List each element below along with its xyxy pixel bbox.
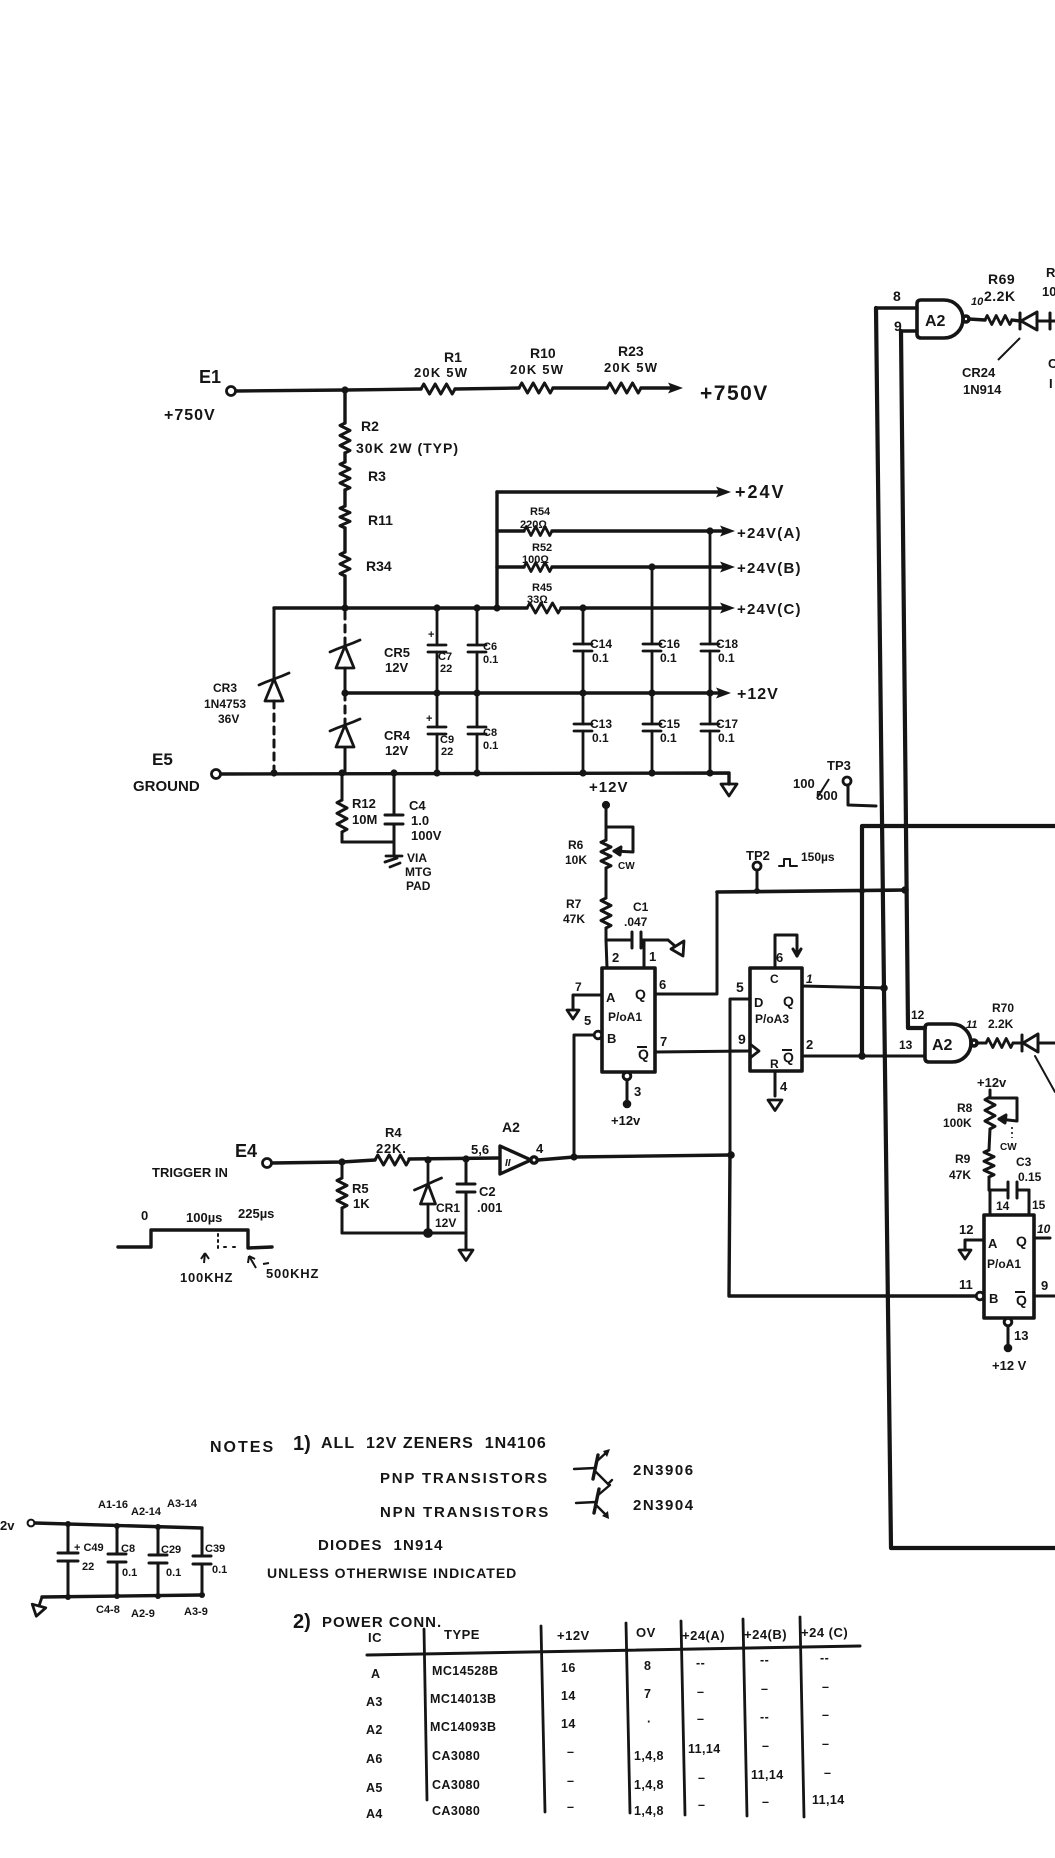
svg-text:22: 22 xyxy=(82,1561,94,1573)
label pins 14 15 xyxy=(996,1198,1046,1213)
junction xyxy=(341,386,348,393)
label TP3 100/500 xyxy=(793,758,851,803)
svg-text:MC14013B: MC14013B xyxy=(430,1692,496,1706)
terminal E4 xyxy=(263,1159,272,1168)
one-shot U A1b box xyxy=(984,1215,1034,1318)
resistor R10 xyxy=(519,383,553,393)
svg-text:225µs: 225µs xyxy=(238,1206,274,1221)
svg-text:CW: CW xyxy=(1000,1142,1017,1153)
svg-text:C15: C15 xyxy=(658,717,680,731)
svg-text:+24V(A): +24V(A) xyxy=(737,525,802,542)
svg-text:CR1: CR1 xyxy=(436,1201,460,1215)
svg-text:Q: Q xyxy=(783,993,794,1009)
svg-text:2.2K: 2.2K xyxy=(988,1017,1014,1031)
svg-text:R54: R54 xyxy=(530,506,551,518)
wire trigger bottom xyxy=(342,1230,466,1250)
label C3 0.15 xyxy=(1016,1155,1042,1184)
label R8 100K CW xyxy=(943,1101,1017,1153)
junction xyxy=(199,1592,205,1598)
terminal TP2 xyxy=(753,862,761,870)
svg-text:+24V(B): +24V(B) xyxy=(737,560,802,577)
junction xyxy=(390,769,397,776)
resistor R45 xyxy=(527,603,561,613)
label A1b internals xyxy=(987,1233,1027,1308)
svg-text:11: 11 xyxy=(966,1019,977,1031)
capacitor C13 xyxy=(574,693,592,773)
wire A1b pin13 +12V xyxy=(1004,1318,1012,1351)
svg-text:+750V: +750V xyxy=(700,382,769,405)
wire A1 pin3 +12V xyxy=(623,1072,631,1107)
svg-text:0: 0 xyxy=(141,1208,148,1223)
svg-text:A2: A2 xyxy=(932,1037,953,1054)
wire A3 clock pin9 xyxy=(730,1050,750,1053)
label A1-16 A2-14 A3-14 xyxy=(98,1498,198,1518)
svg-text:0.1: 0.1 xyxy=(660,731,677,745)
wire inverter output xyxy=(538,1155,731,1160)
label C2 .001 xyxy=(477,1184,502,1215)
label CR1 12V xyxy=(435,1201,460,1230)
junction xyxy=(493,604,500,611)
svg-text:1.0: 1.0 xyxy=(411,813,429,828)
svg-text:R2: R2 xyxy=(361,418,379,434)
svg-text:20K 5W: 20K 5W xyxy=(414,365,468,380)
svg-text:0.1: 0.1 xyxy=(166,1567,181,1579)
svg-text:+12V: +12V xyxy=(589,779,628,796)
wire TP2 stem xyxy=(756,870,759,891)
junction xyxy=(706,527,713,534)
resistor R54 xyxy=(524,527,552,536)
label E5 GROUND xyxy=(133,750,200,795)
svg-text:+24(B): +24(B) xyxy=(744,1627,787,1642)
junction xyxy=(155,1593,161,1599)
svg-text:0.1: 0.1 xyxy=(660,651,677,665)
potentiometer R8 xyxy=(985,1090,1017,1129)
svg-text:–: – xyxy=(698,1771,705,1785)
svg-text:4: 4 xyxy=(536,1141,544,1156)
svg-text:R4: R4 xyxy=(385,1125,402,1140)
svg-text:–: – xyxy=(822,1708,829,1722)
table row A2 xyxy=(366,1708,829,1737)
svg-text:1: 1 xyxy=(806,972,813,986)
svg-text:100Ω: 100Ω xyxy=(522,554,549,566)
label A3 internals xyxy=(754,972,794,1065)
svg-text:C8: C8 xyxy=(483,727,497,739)
svg-text:–: – xyxy=(567,1745,574,1759)
wire A1b Q pin10 xyxy=(1034,1237,1050,1240)
label R9 47K xyxy=(949,1152,971,1182)
svg-text:47K: 47K xyxy=(949,1168,971,1182)
junction xyxy=(880,984,888,992)
junction xyxy=(579,604,586,611)
wire A3 pin4 ground xyxy=(774,1071,777,1096)
svg-text:C2: C2 xyxy=(479,1184,496,1199)
label TP2 150us xyxy=(746,848,835,864)
svg-text:GROUND: GROUND xyxy=(133,778,200,795)
label 500KHZ arrow xyxy=(248,1256,319,1281)
junction xyxy=(648,689,655,696)
svg-text:7: 7 xyxy=(660,1034,667,1049)
label CR25 pointer xyxy=(1035,1056,1055,1092)
svg-text:20K 5W: 20K 5W xyxy=(510,362,564,377)
svg-text:OV: OV xyxy=(636,1625,656,1640)
label C18 0.1 xyxy=(716,637,738,665)
bubble A1 B-input xyxy=(594,1031,602,1039)
svg-text:0.1: 0.1 xyxy=(592,651,609,665)
junction xyxy=(341,604,348,611)
label R2 30K 2W xyxy=(356,418,459,456)
label R52 100 xyxy=(522,542,552,566)
svg-text:10: 10 xyxy=(1042,284,1055,299)
svg-text:2: 2 xyxy=(806,1037,813,1052)
nand gate A2 top xyxy=(917,300,969,338)
wire TP3 stem xyxy=(848,785,876,806)
svg-text:8: 8 xyxy=(893,288,901,304)
svg-text:B: B xyxy=(607,1031,616,1046)
wire A3 Q pin1 xyxy=(802,986,886,988)
svg-text:A2: A2 xyxy=(502,1119,520,1135)
wire net horiz 826 xyxy=(862,826,1055,1056)
capacitor C29 xyxy=(149,1527,167,1597)
svg-text:+12V: +12V xyxy=(557,1628,590,1643)
svg-text:11: 11 xyxy=(959,1277,973,1292)
label R54 220 xyxy=(520,506,551,531)
table row A5 xyxy=(366,1766,831,1795)
label R70 2.2K xyxy=(988,1001,1014,1031)
svg-text:–: – xyxy=(822,1737,829,1751)
label C7 22 + xyxy=(428,629,452,675)
capacitor C39 xyxy=(193,1528,211,1595)
resistor R23 xyxy=(607,383,641,393)
svg-text:6: 6 xyxy=(659,977,666,992)
svg-text:–: – xyxy=(697,1712,704,1726)
svg-text:7: 7 xyxy=(644,1687,651,1701)
svg-text:+24V: +24V xyxy=(735,482,786,502)
svg-text:A6: A6 xyxy=(366,1752,383,1766)
svg-text:–: – xyxy=(824,1766,831,1780)
label R45 33 xyxy=(527,582,552,606)
svg-text:12: 12 xyxy=(959,1222,973,1237)
svg-text:ALL 12V ZENERS 1N4106: ALL 12V ZENERS 1N4106 xyxy=(321,1435,547,1452)
svg-text:0.1: 0.1 xyxy=(718,731,735,745)
junction xyxy=(648,769,655,776)
label C13 0.1 xyxy=(590,717,612,745)
svg-text:R10: R10 xyxy=(530,345,556,361)
ground C1 xyxy=(668,940,684,956)
junction xyxy=(754,888,760,894)
label C8b 0.1 xyxy=(121,1543,137,1579)
wire A2mid output xyxy=(977,1042,1022,1045)
wire A1 B-input xyxy=(574,1035,594,1157)
wire ground rail xyxy=(221,773,729,784)
label 5,6 A2 4 xyxy=(471,1119,544,1157)
svg-text:5: 5 xyxy=(736,979,744,995)
svg-text:16: 16 xyxy=(561,1661,576,1675)
svg-text:14: 14 xyxy=(996,1199,1010,1213)
label C16 0.1 xyxy=(658,637,680,665)
label R5 1K xyxy=(352,1181,370,1211)
svg-text:0.1: 0.1 xyxy=(483,654,498,666)
svg-text:+750V: +750V xyxy=(164,407,216,424)
label C49 22 + xyxy=(74,1542,104,1573)
svg-text:+ C49: + C49 xyxy=(74,1542,104,1554)
waveform dotted xyxy=(218,1234,240,1252)
svg-text:9: 9 xyxy=(894,318,902,334)
svg-text:--: -- xyxy=(820,1651,829,1665)
svg-text:14: 14 xyxy=(561,1717,576,1731)
diode CR25 xyxy=(1022,1034,1055,1052)
svg-text:12V: 12V xyxy=(385,660,408,675)
capacitor C1 xyxy=(606,932,668,948)
svg-text:5,6: 5,6 xyxy=(471,1142,489,1157)
svg-text:R34: R34 xyxy=(366,558,392,574)
svg-text:A5: A5 xyxy=(366,1781,383,1795)
svg-text:A: A xyxy=(606,990,616,1005)
svg-text:11,14: 11,14 xyxy=(812,1793,845,1807)
pulse glyph TP2 xyxy=(779,859,797,866)
label CR4 12V xyxy=(384,728,411,758)
svg-text:C9: C9 xyxy=(440,734,454,746)
capacitor C3 xyxy=(989,1182,1029,1198)
svg-text:IC: IC xyxy=(368,1630,382,1645)
resistor R9 xyxy=(984,1129,994,1190)
svg-text:C6: C6 xyxy=(483,641,497,653)
svg-text:CA3080: CA3080 xyxy=(432,1778,480,1792)
svg-text:PAD: PAD xyxy=(406,879,431,893)
svg-text:A4: A4 xyxy=(366,1807,383,1821)
table header xyxy=(368,1625,848,1645)
label R7 47K xyxy=(563,897,585,926)
zener CR1 xyxy=(415,1160,442,1233)
junction xyxy=(155,1524,161,1530)
svg-text:CW: CW xyxy=(618,861,635,872)
svg-text:12: 12 xyxy=(911,1008,925,1022)
capacitor C7 xyxy=(428,608,446,693)
svg-text:–: – xyxy=(567,1774,574,1788)
svg-text:CR24: CR24 xyxy=(962,365,996,380)
wire +24V(B) rail xyxy=(497,562,735,573)
svg-text:100V: 100V xyxy=(411,828,442,843)
resistor R1 xyxy=(421,384,455,394)
svg-text:VIA: VIA xyxy=(407,851,427,865)
svg-text:P/oA3: P/oA3 xyxy=(755,1012,789,1026)
svg-text:PNP TRANSISTORS: PNP TRANSISTORS xyxy=(380,1470,549,1487)
wire A1 Q pin6 xyxy=(655,892,717,994)
ground trigger xyxy=(459,1250,473,1261)
label waveform times xyxy=(141,1206,274,1225)
label A1 internals xyxy=(606,986,649,1062)
junction xyxy=(114,1593,120,1599)
table row A6 xyxy=(366,1737,829,1766)
label note 2 POWER CONN xyxy=(293,1611,442,1633)
svg-text:A3-14: A3-14 xyxy=(167,1498,198,1510)
svg-text:10M: 10M xyxy=(352,812,377,827)
svg-text:A2: A2 xyxy=(366,1723,383,1737)
waveform trigger xyxy=(118,1230,272,1248)
svg-text:D: D xyxy=(754,995,763,1010)
svg-text:1N4753: 1N4753 xyxy=(204,697,246,711)
svg-text:1: 1 xyxy=(649,949,656,964)
wire trigger to A1b pin11 xyxy=(729,1155,976,1296)
zener CR4 xyxy=(330,719,360,747)
svg-text:–: – xyxy=(822,1680,829,1694)
resistor R2 xyxy=(340,423,350,453)
potentiometer R6 xyxy=(601,827,633,868)
svg-text:Q: Q xyxy=(638,1046,649,1062)
svg-text:C3: C3 xyxy=(1016,1155,1032,1169)
svg-text:100KHZ: 100KHZ xyxy=(180,1270,233,1285)
capacitor C4 xyxy=(385,773,403,842)
svg-text:R23: R23 xyxy=(618,343,644,359)
svg-text:I: I xyxy=(1049,376,1053,391)
capacitor C8 xyxy=(468,693,486,773)
svg-text:E4: E4 xyxy=(235,1141,257,1161)
svg-text:TRIGGER IN: TRIGGER IN xyxy=(152,1165,228,1180)
svg-text:–: – xyxy=(762,1739,769,1753)
svg-text:C8: C8 xyxy=(121,1543,135,1555)
svg-text:–: – xyxy=(697,1685,704,1699)
wire A1b Qbar pin9 xyxy=(1034,1295,1055,1298)
junction xyxy=(65,1594,71,1600)
svg-text:47K: 47K xyxy=(563,912,585,926)
terminal E5 xyxy=(212,770,221,779)
capacitor C8b xyxy=(108,1526,126,1597)
svg-text:–: – xyxy=(567,1800,574,1814)
label 100KHZ arrow xyxy=(180,1253,233,1285)
resistor R69 xyxy=(985,316,1012,325)
ground via mtg pad xyxy=(385,856,402,867)
junction xyxy=(579,689,586,696)
label C4 1.0 100V xyxy=(409,798,442,843)
wire trigger line xyxy=(272,1158,498,1163)
svg-text:20K 5W: 20K 5W xyxy=(604,360,658,375)
svg-text:2N3904: 2N3904 xyxy=(633,1497,695,1514)
wire R7 to pin2 xyxy=(606,940,607,968)
svg-text:+12 V: +12 V xyxy=(992,1358,1027,1373)
label R4 22K xyxy=(376,1125,407,1156)
svg-text:R12: R12 xyxy=(352,796,376,811)
svg-text:C17: C17 xyxy=(716,717,738,731)
svg-text:22K.: 22K. xyxy=(376,1141,407,1156)
svg-text:NPN TRANSISTORS: NPN TRANSISTORS xyxy=(380,1504,550,1521)
svg-text:DIODES 1N914: DIODES 1N914 xyxy=(318,1537,444,1554)
svg-text:C14: C14 xyxy=(590,637,612,651)
wire A2top pin9 xyxy=(901,329,917,332)
svg-text:A2-9: A2-9 xyxy=(131,1608,155,1620)
svg-text:+24 (C): +24 (C) xyxy=(801,1625,848,1640)
svg-text:CA3080: CA3080 xyxy=(432,1749,480,1763)
resistor R52 xyxy=(524,563,552,572)
wire divider chain xyxy=(343,390,346,609)
svg-text:C: C xyxy=(1048,356,1055,371)
svg-text:.047: .047 xyxy=(624,915,648,929)
svg-text:R45: R45 xyxy=(532,582,552,594)
diode CR24 xyxy=(1020,312,1055,330)
junction xyxy=(338,769,345,776)
capacitor C15 xyxy=(643,693,661,773)
capacitor C9 xyxy=(428,693,446,773)
ground A3 xyxy=(768,1100,782,1111)
svg-text:0.1: 0.1 xyxy=(718,651,735,665)
svg-text:C4: C4 xyxy=(409,798,426,813)
svg-text:–: – xyxy=(762,1795,769,1809)
junction xyxy=(859,888,865,894)
svg-text:C13: C13 xyxy=(590,717,612,731)
wire TP2 line xyxy=(717,890,906,892)
svg-text:1,4,8: 1,4,8 xyxy=(634,1778,664,1792)
svg-text:TP2: TP2 xyxy=(746,848,770,863)
ground xyxy=(721,784,737,796)
transistor NPN symbol xyxy=(576,1485,610,1519)
svg-text:CA3080: CA3080 xyxy=(432,1804,480,1818)
table underline xyxy=(367,1646,860,1655)
svg-text:P/oA1: P/oA1 xyxy=(987,1257,1021,1271)
resistor R11 xyxy=(340,506,350,528)
label CR3 1N4753 36V xyxy=(204,681,246,726)
resistor R5 xyxy=(337,1162,347,1233)
svg-text:A2-14: A2-14 xyxy=(131,1506,162,1518)
svg-text:7: 7 xyxy=(575,980,582,994)
label C14 0.1 xyxy=(590,637,612,665)
svg-text:Q: Q xyxy=(783,1049,794,1065)
wire cap bank bottom rail xyxy=(42,1595,202,1597)
svg-text:13: 13 xyxy=(1014,1328,1028,1343)
svg-text:+: + xyxy=(428,629,434,641)
svg-text:C29: C29 xyxy=(161,1544,181,1556)
label C29 0.1 xyxy=(161,1544,181,1579)
svg-text:10K: 10K xyxy=(565,853,587,867)
svg-text:CR3: CR3 xyxy=(213,681,237,695)
svg-text:1): 1) xyxy=(293,1433,311,1455)
svg-text:A3-9: A3-9 xyxy=(184,1606,208,1618)
zener CR5 xyxy=(330,640,360,668)
wire net pin8 vertical xyxy=(876,308,1055,1548)
svg-text:12V: 12V xyxy=(385,743,408,758)
svg-text:R7: R7 xyxy=(566,897,582,911)
svg-text:A: A xyxy=(371,1667,380,1681)
svg-text:R52: R52 xyxy=(532,542,552,554)
wire cap bank top rail xyxy=(35,1523,202,1528)
label pins 8 9 10 xyxy=(893,288,984,334)
svg-text:11,14: 11,14 xyxy=(751,1768,784,1782)
label cut right edge xyxy=(1042,265,1055,391)
wire +24V(A) rail xyxy=(497,526,735,537)
svg-text:R1: R1 xyxy=(444,349,462,365)
junction xyxy=(462,1155,469,1162)
wire CR5 branch xyxy=(344,612,347,693)
junction xyxy=(727,1151,735,1159)
wire net pin9 vertical xyxy=(901,331,925,1028)
wire R12-C4 bottom xyxy=(342,842,394,856)
resistor R70 xyxy=(986,1039,1013,1048)
label C1 .047 xyxy=(624,900,649,929)
table row A4 xyxy=(366,1793,845,1821)
label pin3 +12v xyxy=(611,1084,641,1128)
svg-text:P/oA1: P/oA1 xyxy=(608,1010,642,1024)
junction xyxy=(570,1153,577,1160)
svg-text:4: 4 xyxy=(780,1079,788,1094)
capacitor C16 xyxy=(643,567,661,693)
svg-text:14: 14 xyxy=(561,1689,576,1703)
junction xyxy=(473,604,480,611)
svg-text:30K 2W (TYP): 30K 2W (TYP) xyxy=(356,440,459,456)
svg-text:A2: A2 xyxy=(925,313,946,330)
label pins 12 13 11 xyxy=(899,1008,977,1052)
svg-text:10: 10 xyxy=(1037,1222,1051,1236)
svg-text:+: + xyxy=(426,713,432,725)
label pin13 +12V xyxy=(992,1328,1028,1373)
svg-text:C39: C39 xyxy=(205,1543,225,1555)
capacitor C18 xyxy=(701,531,719,693)
